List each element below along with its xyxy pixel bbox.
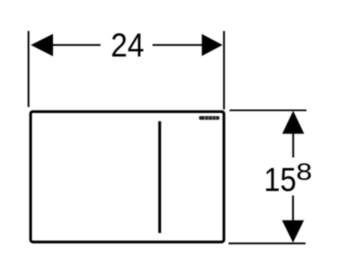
left arrowhead [31,34,53,56]
dimension line 24 right segment [153,44,203,46]
right arrowhead [202,34,223,56]
bottom horizontal extension line [229,242,306,244]
Geberit logo [199,116,219,120]
dimension line 24 left segment [51,44,101,46]
vertical dimension stem upper [292,133,294,158]
top horizontal extension line [230,109,307,111]
left extension line [28,31,30,107]
plate split line [158,121,161,233]
svg-text:8: 8 [296,159,312,186]
down arrowhead [282,220,304,242]
up arrowhead [282,111,304,134]
flush plate outline [31,112,224,242]
right extension line [223,31,225,110]
vertical dimension stem lower [292,196,294,222]
svg-text:24: 24 [111,27,144,64]
svg-text:15: 15 [264,161,297,198]
